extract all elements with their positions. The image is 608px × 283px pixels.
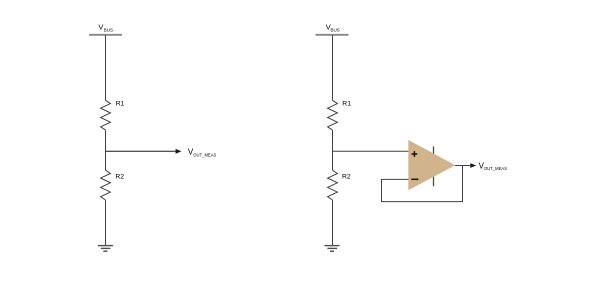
svg-text:R1: R1 (342, 100, 351, 107)
arrowhead output (470, 163, 476, 168)
wire R2 bottom to ground (left) (105, 200, 107, 246)
svg-text:R1: R1 (116, 100, 125, 107)
wire R1 bottom to R2 top through node (right) (332, 130, 334, 170)
resistor R2 (left) (101, 170, 125, 200)
svg-text:OUT_MEAS: OUT_MEAS (193, 152, 216, 158)
resistor R2 (right) (328, 170, 351, 200)
svg-text:V: V (98, 23, 103, 32)
svg-text:OUT_MEAS: OUT_MEAS (484, 166, 507, 172)
wire VBUS to R1 top (left) (105, 35, 107, 100)
svg-text:R2: R2 (115, 173, 124, 180)
wire feedback loop output to inverting input (382, 166, 463, 202)
svg-text:BUS: BUS (104, 27, 113, 32)
svg-text:R2: R2 (342, 173, 351, 180)
svg-text:BUS: BUS (331, 27, 340, 32)
wire R1 bottom to R2 top through node (left) (105, 130, 107, 170)
resistor R1 (left) (101, 100, 125, 130)
op-amp U1 plus input symbol (412, 151, 418, 157)
op-amp U1 minus input symbol (411, 178, 418, 180)
node VBUS label (right circuit) (326, 23, 340, 33)
wire R2 bottom to ground (right) (332, 200, 334, 246)
wire divider node to op-amp + input (333, 150, 409, 152)
node VBUS label (left circuit) (98, 23, 113, 33)
power rail VBUS bar (right circuit) (316, 34, 349, 36)
op-amp U1 positive supply pin (433, 146, 435, 158)
op-amp U1 body (408, 140, 455, 190)
resistor R1 (right) (328, 100, 352, 130)
node VOUT_MEAS label (right) (479, 161, 507, 172)
op-amp U1 negative supply pin (433, 173, 435, 186)
ground (left) (98, 246, 113, 252)
ground (right) (325, 246, 340, 252)
wire VBUS to R1 top (right) (332, 35, 334, 100)
power rail VBUS bar (left circuit) (89, 34, 122, 36)
wire op-amp output (455, 165, 471, 167)
node VOUT_MEAS arrow (left) (106, 148, 217, 159)
